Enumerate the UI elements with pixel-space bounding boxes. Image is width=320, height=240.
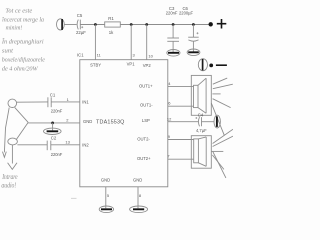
svg-text:În dreptunghiuri: În dreptunghiuri xyxy=(1,38,44,46)
svg-text:12: 12 xyxy=(167,116,172,121)
connector J2 (-supply plug) xyxy=(198,59,207,71)
wire pin 8 GND xyxy=(137,187,139,209)
svg-text:VP1: VP1 xyxy=(127,62,136,67)
capacitor C1 220nF xyxy=(47,97,49,107)
svg-text:de 4 ohm/20W: de 4 ohm/20W xyxy=(2,66,38,73)
resistor R1 1k xyxy=(105,22,121,27)
svg-text:VP2: VP2 xyxy=(143,63,152,68)
svg-text:4,7µF: 4,7µF xyxy=(196,128,207,133)
wire to pin 10 xyxy=(146,25,148,60)
svg-text:IN2: IN2 xyxy=(82,142,89,147)
node: supply + terminal xyxy=(209,22,213,26)
node: C6 junction xyxy=(192,23,195,26)
wire to pin 3 xyxy=(130,25,132,60)
svg-text:GND: GND xyxy=(83,119,92,124)
minus symbol xyxy=(216,64,227,66)
ground xyxy=(130,206,148,213)
ground xyxy=(99,206,113,213)
wire pin 4 to speaker LS1 xyxy=(168,86,194,88)
capacitor C4 4,7uF xyxy=(198,117,199,126)
svg-text:TDA1553Q: TDA1553Q xyxy=(96,120,125,126)
svg-text:Intrare: Intrare xyxy=(1,174,17,181)
wire tip to C1 xyxy=(17,101,48,103)
wire pin 12 to C4 xyxy=(168,121,198,123)
svg-text:R1: R1 xyxy=(108,16,114,21)
wire stub xyxy=(52,123,54,130)
wire xyxy=(172,41,174,52)
wire jack common diagonals xyxy=(15,107,29,122)
capacitor C2 220nF xyxy=(46,141,48,151)
svg-text:Tot ce este: Tot ce este xyxy=(5,7,32,14)
capacitor C3 220nF xyxy=(167,37,179,39)
speaker LS2 xyxy=(191,136,211,169)
wire xyxy=(71,197,77,199)
note text top-left xyxy=(1,7,45,72)
svg-text:GND: GND xyxy=(133,178,142,183)
svg-text:OUT2-: OUT2- xyxy=(137,136,150,141)
svg-text:2200µF: 2200µF xyxy=(179,11,193,16)
svg-text:audio!: audio! xyxy=(1,183,16,190)
wire pin 9 to speaker LS2 xyxy=(168,139,194,141)
wire xyxy=(172,25,174,39)
ground (vertical) xyxy=(214,115,220,128)
wire xyxy=(120,24,210,26)
wire to pin 1 xyxy=(51,101,80,103)
svg-text:22µF: 22µF xyxy=(76,30,86,35)
node: C3 junction xyxy=(172,23,175,26)
svg-text:boxele/difuzoarele: boxele/difuzoarele xyxy=(2,57,45,64)
plus symbol xyxy=(217,23,227,25)
svg-text:220nF: 220nF xyxy=(166,11,178,16)
node: VP2 junction xyxy=(145,23,148,26)
capacitor C6 2200uF xyxy=(188,36,199,38)
svg-text:OUT1+: OUT1+ xyxy=(139,83,153,88)
speaker LS1 xyxy=(191,75,211,115)
svg-text:GND: GND xyxy=(101,178,110,183)
svg-text:IN1: IN1 xyxy=(82,99,89,104)
wire xyxy=(80,24,104,26)
svg-text:C2: C2 xyxy=(51,136,57,141)
ground xyxy=(187,49,200,56)
svg-text:10: 10 xyxy=(148,53,153,58)
svg-text:IC1: IC1 xyxy=(77,53,84,58)
svg-text:minim!: minim! xyxy=(6,25,23,32)
svg-text:LSP: LSP xyxy=(142,118,150,123)
node: supply - terminal xyxy=(209,64,213,68)
svg-text:C5: C5 xyxy=(77,13,83,18)
wire xyxy=(202,121,214,123)
input jack (stereo) xyxy=(8,99,17,107)
wire to pin 11 xyxy=(94,25,96,60)
wire pin 6 to speaker LS1 xyxy=(168,105,194,107)
node xyxy=(51,122,54,125)
wire pin 5 GND xyxy=(105,187,107,209)
svg-text:sunt: sunt xyxy=(2,48,13,55)
wire to pin 13 xyxy=(51,144,80,146)
svg-text:C4: C4 xyxy=(198,112,204,117)
svg-text:220nF: 220nF xyxy=(51,152,63,157)
wire ring to C2 xyxy=(17,144,47,146)
sound waves LS2 xyxy=(213,129,233,143)
node: STBY junction xyxy=(94,23,97,26)
svg-text:C1: C1 xyxy=(50,93,56,98)
wire sleeve arrow (left) xyxy=(4,108,9,153)
sound waves LS1 xyxy=(213,78,227,84)
ground xyxy=(167,50,180,57)
svg-text:OUT2+: OUT2+ xyxy=(137,156,151,161)
svg-text:STBY: STBY xyxy=(90,63,101,68)
svg-text:220nF: 220nF xyxy=(51,108,63,113)
wire xyxy=(64,24,76,26)
connector J1 (+supply plug) xyxy=(57,19,65,30)
wire xyxy=(192,25,194,38)
capacitor C5 22uF xyxy=(77,20,78,30)
svg-text:încercat merge la: încercat merge la xyxy=(2,16,45,23)
op IC U1 TDA1553Q box xyxy=(80,60,168,187)
svg-text:13: 13 xyxy=(65,140,70,145)
svg-text:OUT1-: OUT1- xyxy=(140,103,153,108)
wire xyxy=(192,42,194,52)
arrow from jack body xyxy=(11,145,13,164)
node: VP1 junction xyxy=(130,23,133,26)
wire GND to pin 2 xyxy=(28,122,80,124)
ground xyxy=(44,128,62,134)
wire pin 7 to speaker LS2 xyxy=(168,158,194,160)
